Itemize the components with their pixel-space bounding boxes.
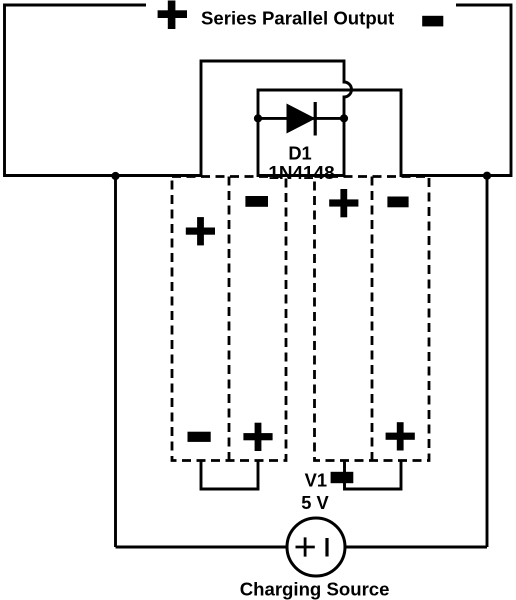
wire diode row horizontal — [258, 117, 344, 120]
polarity mark: cell1 top plus — [186, 217, 215, 245]
svg-text:Series Parallel Output: Series Parallel Output — [201, 7, 394, 28]
polarity mark: cell2 top minus — [245, 196, 268, 207]
polarity mark: cell4 bottom plus — [386, 422, 415, 450]
battery cell pair 1-2 dashed outline — [172, 177, 429, 461]
svg-text:1N4148: 1N4148 — [268, 163, 334, 184]
wire from node A down to charging source (left) — [114, 176, 117, 548]
svg-text:5 V: 5 V — [301, 492, 329, 513]
wire cell2 negative pin up, across second inner run, down to cell4 pin — [258, 90, 401, 177]
polarity mark: minus on top border (output -) — [422, 16, 443, 27]
battery V1 plate mark — [331, 472, 354, 483]
wire cell1 positive pin up, across top inner run, down with hop to diode cathode node, down to cell3 pin — [201, 61, 352, 177]
wire from node B down to charging source (right) — [486, 176, 489, 548]
diode D1 cathode bar — [314, 102, 317, 136]
node diode anode junction dot — [254, 114, 262, 122]
polarity mark: big plus on top border (output +) — [158, 1, 187, 30]
diode D1 triangle — [287, 104, 315, 132]
wire top border right segment + right border + right output rail — [401, 5, 511, 176]
wire top border left segment + left border + left output rail — [5, 5, 202, 176]
wire middle rail through 1N4148 label (cell2 pin to cell3 pin) — [258, 174, 344, 177]
polarity mark: cell2 bottom plus — [243, 423, 272, 451]
wire battery bottom U connecting cell1 and cell2 — [201, 460, 258, 489]
charging source minus bar — [325, 538, 328, 557]
wire bottom rail left to charging source — [116, 546, 288, 549]
battery cell pair 3-4 dashed outline — [315, 177, 430, 461]
node B junction dot — [483, 172, 491, 180]
node diode cathode junction dot — [340, 114, 348, 122]
polarity mark: cell1 bottom minus — [188, 432, 211, 442]
charging source plus mark — [296, 537, 315, 556]
polarity mark: cell4 top minus — [387, 197, 408, 208]
battery cell divider 3/4 — [371, 177, 374, 461]
battery cell divider 1/2 — [228, 177, 231, 461]
polarity mark: cell3 top plus — [329, 189, 358, 217]
svg-text:Charging Source: Charging Source — [240, 579, 390, 600]
node A junction dot — [111, 172, 119, 180]
charging source circle — [287, 518, 345, 576]
wire bottom rail right from charging source — [345, 546, 487, 549]
svg-text:V1: V1 — [305, 470, 327, 491]
svg-text:D1: D1 — [288, 143, 311, 164]
wire battery bottom U connecting cell3 and cell4 (V1 net) — [345, 460, 402, 489]
